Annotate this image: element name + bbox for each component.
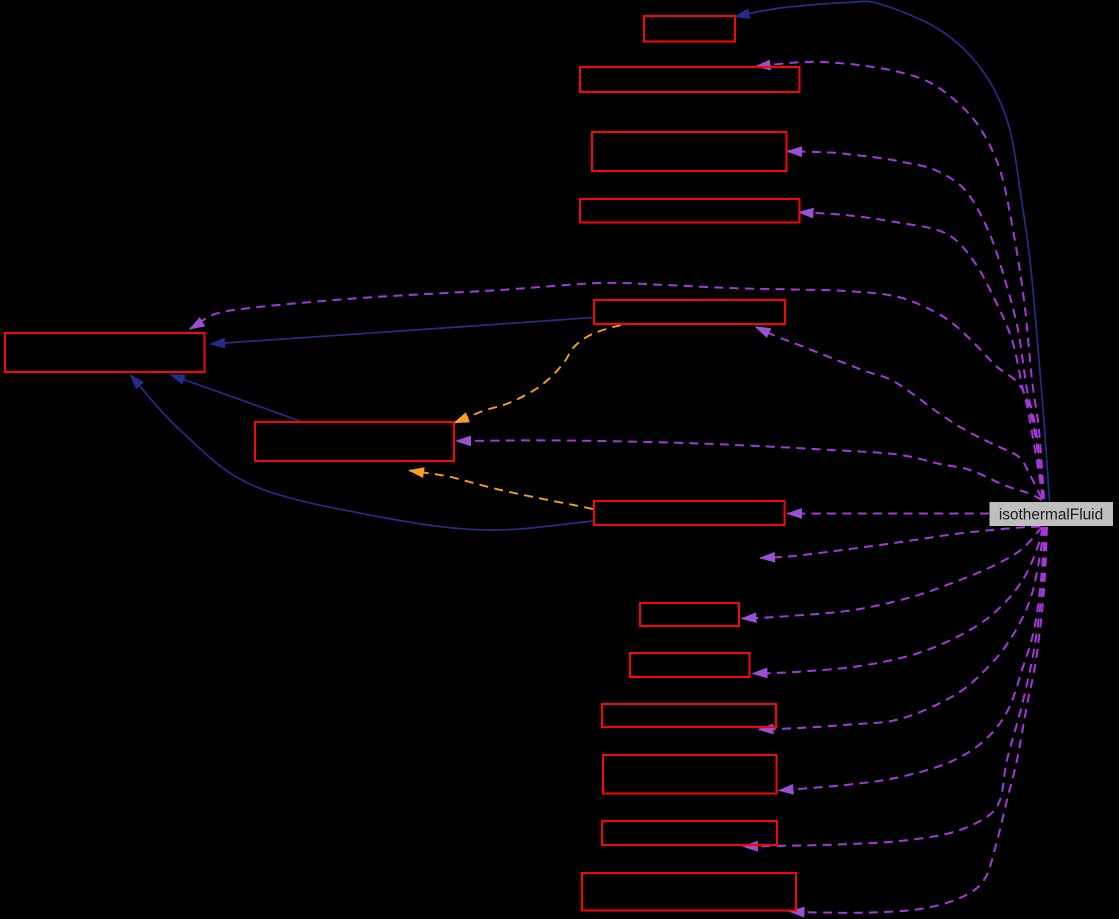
edge isothermalFluid->box14 (dashed purple)	[790, 527, 1047, 913]
edge isothermalFluid->box12 (dashed purple)	[779, 527, 1045, 791]
edge isothermalFluid->box10 (dashed purple)	[753, 527, 1043, 674]
edge box5->box7 (dashed orange)	[455, 325, 622, 423]
node box2	[580, 67, 800, 92]
edge isothermalFluid->box9 (dashed purple)	[742, 527, 1042, 619]
edge isothermalFluid->box6 (dashed purple long arc)	[190, 283, 1043, 498]
node box10	[630, 653, 750, 677]
node isothermalFluid (current node, grey)	[990, 502, 1114, 526]
node box6	[5, 333, 205, 372]
node box3	[592, 132, 787, 171]
node box12	[603, 755, 777, 794]
edge box7->box6 (solid navy)	[171, 375, 301, 421]
node box7	[255, 422, 454, 461]
edge box8->box6 (solid navy curve)	[131, 375, 594, 530]
node box1	[644, 16, 735, 42]
node box13	[602, 821, 777, 845]
edge isothermalFluid->box3 (dashed purple)	[788, 151, 1044, 499]
node box11	[602, 704, 776, 727]
edge box5->box6 (solid navy)	[211, 318, 594, 345]
node box4	[580, 199, 800, 223]
edge isothermalFluid->box4 (dashed purple)	[799, 212, 1043, 499]
edge isothermalFluid->box5 (dashed purple)	[756, 327, 1042, 498]
edge isothermalFluid->box11 (dashed purple)	[759, 527, 1044, 729]
node box14	[582, 873, 796, 911]
node box5	[594, 300, 785, 324]
edge box8->box7 (dashed orange)	[410, 471, 594, 510]
edge isothermalFluid->box2 (dashed purple)	[756, 62, 1044, 499]
edge isothermalFluid->hidden (dashed purple)	[761, 527, 1041, 559]
edge isothermalFluid->box1 (solid navy)	[735, 1, 1050, 501]
svg-text:isothermalFluid: isothermalFluid	[999, 507, 1103, 524]
edge isothermalFluid->box7 (dashed purple)	[457, 440, 1043, 500]
node box9	[640, 603, 739, 626]
edge isothermalFluid->box13 (dashed purple)	[744, 527, 1047, 847]
edge isothermalFluid->box8 (dashed purple)	[788, 513, 990, 515]
node box8	[594, 501, 785, 525]
